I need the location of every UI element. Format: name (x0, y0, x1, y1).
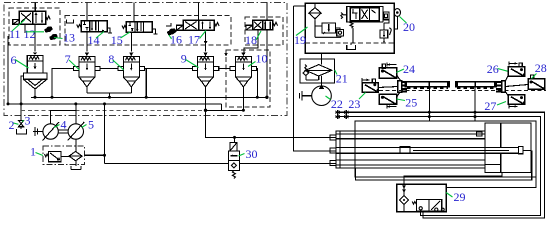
pump risers (51, 104, 76, 124)
wire valve29 top to cylinder (404, 172, 502, 184)
tank under box 1 (71, 161, 81, 170)
svg-text:18: 18 (245, 33, 257, 47)
relief spring under pilot valve (350, 21, 353, 43)
svg-text:2: 2 (9, 118, 15, 132)
rail end caps (447, 81, 450, 87)
svg-text:16: 16 (170, 33, 182, 47)
wire valve 15 top (133, 3, 135, 22)
tank bracket left of valve 14 (67, 19, 74, 23)
cushion detail (477, 132, 483, 136)
bus line 3 (206, 109, 244, 111)
svg-text:23: 23 (348, 97, 360, 111)
injector 9 (192, 53, 218, 111)
svg-text:1: 1 (30, 145, 36, 159)
rail under ticks (407, 87, 448, 89)
svg-text:28: 28 (535, 61, 547, 75)
svg-text:9: 9 (181, 51, 187, 65)
pressure gauge 20 (394, 9, 400, 29)
wire valve 17 top (198, 3, 200, 21)
filter unit 21 (300, 59, 335, 83)
wires in box 1 (61, 155, 69, 157)
dashed box around valves 11-13 (9, 8, 60, 45)
bus riser left (7, 36, 9, 104)
wire injector7 left port to bus (52, 69, 74, 98)
valve 18 (4/2 directional valve) (253, 20, 273, 30)
wire valve 14 top (86, 3, 88, 21)
spring of valve 11 (46, 16, 51, 20)
manifold block left group (398, 81, 407, 93)
injector 7 (74, 53, 100, 93)
bus line 2 (8, 104, 222, 110)
throttle 28 (505, 75, 544, 90)
manifold block right group (496, 81, 505, 93)
svg-text:14: 14 (88, 33, 100, 47)
svg-text:15: 15 (111, 33, 123, 47)
svg-text:30: 30 (246, 147, 258, 161)
svg-text:11 12: 11 12 (9, 27, 36, 41)
valve 29 box (397, 184, 447, 211)
wire injector8 right port down (145, 69, 147, 98)
throttle 23 (362, 78, 398, 92)
svg-text:24: 24 (403, 62, 415, 76)
dashed box around valve 18 (245, 17, 283, 45)
cylinder left port tabs (330, 135, 336, 166)
quick couplings on line 1 (335, 110, 348, 115)
svg-text:4: 4 (61, 117, 67, 131)
wire injector10 right port down (256, 69, 259, 98)
svg-text:29: 29 (454, 190, 466, 204)
svg-text:26: 26 (487, 62, 499, 76)
coupling between pumps (58, 130, 68, 133)
pump 5 (68, 122, 85, 141)
wire valve 17 to injector 9 (205, 30, 207, 51)
piston rod (410, 148, 519, 154)
spring of valve 17 (214, 23, 219, 27)
coupling line 2 (336, 117, 541, 216)
dashed box around valves 14-17 (65, 16, 231, 45)
wire unit 21 to power unit (321, 53, 323, 86)
quick couplings on line 2 (335, 114, 348, 119)
spring of valve 18 (273, 22, 278, 25)
injector 8 (118, 53, 144, 93)
cylinder right head (485, 123, 531, 173)
svg-text:25: 25 (405, 96, 417, 110)
reducing valve in unit 19 (315, 21, 341, 37)
lubrication rail 2 (456, 82, 497, 87)
svg-text:10: 10 (256, 51, 268, 65)
wire injector6 left port down (21, 76, 23, 121)
wire valve 18 top (266, 3, 268, 21)
injector 10 (230, 53, 256, 111)
valve 11 (4/2 directional valve) (19, 11, 45, 24)
leader lines (12, 20, 25, 32)
wire valve 11 to injector 6 (34, 24, 36, 51)
box 1 outlet to right (84, 154, 104, 156)
shaft of pump 4 (33, 127, 43, 136)
check valve 3 (19, 121, 24, 130)
cylinder barrel (336, 131, 485, 168)
valve 30 (flow control) (228, 137, 239, 178)
funnel bus injectors 7-8 (87, 93, 131, 98)
svg-text:21: 21 (336, 72, 348, 86)
wire injector9 left port to left (146, 68, 192, 70)
tank 2 (17, 129, 27, 134)
throttle 26 (505, 62, 524, 82)
svg-text:7: 7 (65, 52, 71, 66)
throttle 24 (379, 63, 400, 81)
chain-line enclosure (machine boundary, left block) (4, 3, 287, 116)
tank symbol in unit 19 (347, 43, 356, 49)
gauge port block in unit 19 (336, 28, 344, 36)
bus line 1 (31, 96, 267, 98)
supply down from power unit to cylinder port 2 (294, 6, 337, 151)
wire from valve 11 top to boundary (34, 3, 36, 12)
dashed box around injector 10 (226, 50, 270, 107)
piston rod bore (336, 148, 485, 154)
pilot arrow into dashed box (224, 53, 228, 56)
spring of valve 15 (122, 26, 126, 29)
wire valve 29 to carriage (446, 177, 536, 187)
filter in unit 19 (309, 3, 321, 26)
dashed pilot line (21, 109, 205, 111)
svg-text:13: 13 (63, 31, 75, 45)
wire injector9 right port to injector10 left port (219, 68, 231, 70)
throttle 27 (505, 92, 524, 109)
gauge stub block in unit 19 (383, 12, 389, 20)
2/2 roller valve in valve 29 (412, 200, 444, 212)
power unit 19 enclosure (305, 3, 394, 53)
wire valve 18 to injector 10 (244, 30, 258, 53)
wire injector7 right port to injector8 left port (100, 68, 118, 70)
rail drops to couplings (428, 87, 430, 122)
piston (400, 146, 410, 153)
wire valve 15 to injector 8 (130, 32, 132, 51)
line under cylinder wrap (355, 150, 531, 180)
check valve 13 (tilted) (49, 33, 58, 40)
valve 15 (3-position valve) (126, 22, 152, 33)
svg-text:22: 22 (331, 97, 343, 111)
coupling line 1 (336, 112, 545, 218)
line from left down to valve 30 and cylinder port 3 (104, 104, 106, 164)
pump 22 (299, 85, 331, 106)
svg-text:17: 17 (188, 33, 200, 47)
drain foot of valve 14 (107, 28, 112, 33)
pilot valve in unit 19 (347, 6, 383, 22)
valve 17 (4/2 directional valve) (183, 20, 214, 30)
valve 14 (3-position valve) (81, 21, 107, 32)
wire valve 14 to injector 7 (86, 32, 88, 52)
box 1 (pump valve group, chain-dashed) (43, 146, 85, 164)
relief valve bottom right in unit 19 (380, 20, 391, 43)
check valve 12 (tilted) (44, 26, 53, 33)
check valve diamond in box 1 (69, 151, 82, 160)
metering unit in valve 29 (400, 184, 409, 211)
svg-text:27: 27 (484, 99, 496, 113)
drain foot of valve 15 (152, 29, 158, 34)
relief valve in box 1 (45, 151, 62, 161)
injector 6 (23, 53, 47, 98)
check valve 16 (tilted) (166, 28, 176, 36)
solenoid of valve 11 (13, 20, 20, 25)
solenoid of valve 17 (177, 25, 183, 30)
svg-text:8: 8 (108, 52, 114, 66)
solenoid of valve 18 (246, 25, 253, 30)
wire valve 11 left port down (24, 24, 26, 33)
svg-text:3: 3 (25, 113, 31, 127)
pump 5 outlet down (75, 139, 77, 151)
rod end cap (519, 146, 524, 153)
pump 4 (43, 122, 60, 141)
drain line to valve 30 and cylinder port 1 (206, 110, 337, 137)
guideway hidden dashed line (379, 90, 546, 92)
spring of valve 14 (77, 25, 81, 28)
svg-text:5: 5 (88, 117, 94, 131)
junction dots (20, 102, 23, 105)
throttle 25 (379, 92, 400, 109)
spring left of pilot valve (341, 13, 347, 19)
lubrication rail 1 (405, 82, 449, 87)
cylinder outer carriage box (355, 121, 536, 177)
drain wire valve 18 to bus (266, 30, 268, 97)
